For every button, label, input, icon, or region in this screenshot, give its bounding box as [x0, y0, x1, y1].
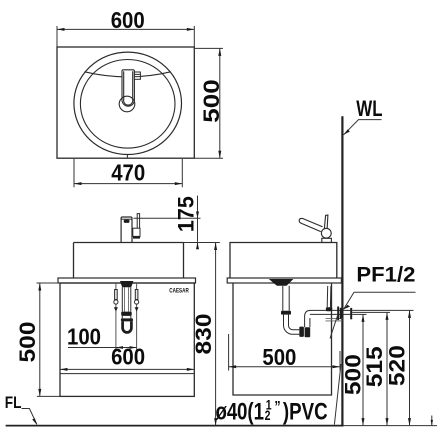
wall line [341, 116, 343, 425]
trap pipe segment (front) [122, 316, 131, 319]
counter slab (front) [58, 278, 196, 283]
dimension 500 (wall right) [352, 314, 366, 425]
dimension 500 (side bottom) [229, 334, 340, 371]
dimension 175 (front faucet) [134, 196, 201, 249]
dimension 500 (front left) [37, 283, 61, 396]
svg-text:0: 0 [237, 398, 247, 425]
svg-text:500: 500 [262, 344, 296, 370]
dimension 500 (plan right) [194, 48, 223, 158]
svg-text:600: 600 [111, 344, 145, 370]
svg-text:100: 100 [67, 324, 101, 350]
svg-text:”: ” [274, 398, 280, 416]
svg-text:520: 520 [385, 345, 410, 386]
wall pipe stub [343, 310, 350, 314]
drain tick line (plan) [126, 155, 128, 159]
faucet handle (plan) [134, 72, 140, 79]
svg-text:2: 2 [265, 408, 271, 424]
faucet body (plan) [122, 70, 134, 106]
left water supply (front) [115, 283, 117, 352]
dimension 515 (wall right) [352, 312, 390, 425]
svg-text:ø4: ø4 [216, 398, 238, 425]
svg-text:PF1/2: PF1/2 [356, 263, 415, 287]
faucet (side) [299, 215, 331, 243]
svg-text:CAESAR: CAESAR [169, 289, 189, 295]
vessel basin (front) [74, 243, 184, 279]
counter top rectangle (plan) [57, 47, 194, 158]
cabinet divider line (front) [60, 373, 194, 375]
dimension 830 (front right) [184, 243, 220, 426]
faucet body (front) [121, 217, 132, 243]
svg-text:WL: WL [356, 96, 382, 121]
svg-text:470: 470 [111, 159, 145, 185]
right water supply (front) [136, 283, 138, 352]
faucet handle (front) [121, 214, 140, 237]
basin deck arc (plan) [85, 72, 171, 77]
svg-text:175: 175 [174, 196, 199, 232]
svg-text:(1: (1 [247, 398, 264, 425]
drain flange (front) [120, 281, 133, 287]
floor line [6, 425, 344, 427]
svg-text:)PVC: )PVC [283, 398, 328, 425]
dimension 470 (plan bottom) [74, 159, 182, 188]
cabinet (side) [233, 283, 332, 395]
svg-text:500: 500 [199, 79, 224, 123]
drain circle (plan) [119, 96, 135, 112]
svg-text:500: 500 [15, 322, 40, 363]
dimension 600 (plan top) [57, 26, 194, 47]
svg-text:FL: FL [5, 393, 22, 412]
basin inner circle (plan) [80, 60, 175, 149]
trap U-bend (front) [123, 321, 132, 332]
trap elbow (side) [284, 315, 300, 335]
svg-text:830: 830 [191, 314, 216, 355]
trap outlet arm to wall (side) [305, 310, 343, 321]
spout outlet U (plan) [124, 100, 133, 105]
trap union nuts (side) [299, 327, 310, 338]
floor end tick [431, 416, 433, 426]
cabinet (front) [60, 283, 194, 396]
counter slab (side) [227, 278, 341, 283]
Ø40(1 1/2")PVC label [216, 397, 328, 425]
dimension 600 (front) [60, 368, 194, 370]
faucet spout mark (front) [124, 220, 130, 223]
trap upper nut (front) [121, 318, 133, 321]
trap outlet riser (side) [305, 317, 310, 328]
supply drop pipe (side) [327, 286, 331, 307]
drain flange (side) [269, 279, 294, 286]
basin (side) [230, 243, 337, 279]
basin outer rim circle (plan) [74, 52, 182, 154]
trap nut (front) [121, 312, 132, 316]
svg-text:515: 515 [362, 346, 387, 387]
dimension 100 (front) [68, 347, 137, 349]
wall flange (side) [337, 307, 341, 321]
svg-text:600: 600 [111, 7, 145, 33]
drain tailpipe (front) [122, 287, 131, 311]
dimension 520 (wall right) [352, 310, 413, 425]
drain tailpipe (side) [283, 286, 289, 311]
trap nut (side) [281, 311, 291, 315]
